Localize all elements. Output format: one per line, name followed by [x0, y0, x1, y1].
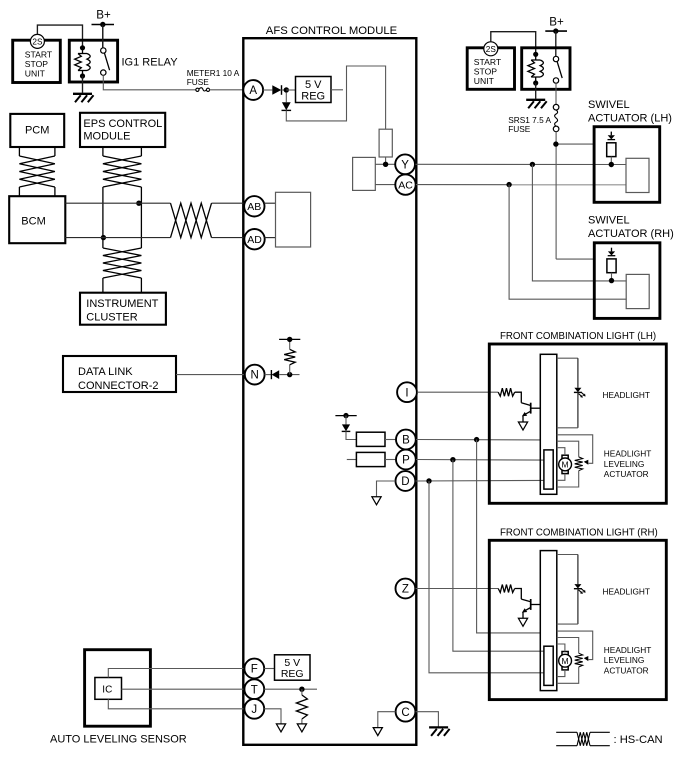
wire IC to pin F — [108, 669, 244, 678]
swivel actuator (RH) label — [588, 215, 674, 241]
svg-text:AC: AC — [398, 179, 413, 191]
svg-text:: HS-CAN: : HS-CAN — [614, 734, 663, 746]
junction at pin T — [299, 687, 304, 692]
svg-text:ACTUATOR (LH): ACTUATOR (LH) — [588, 113, 672, 125]
svg-text:IC: IC — [102, 684, 112, 695]
svg-text:SWIVEL: SWIVEL — [588, 215, 630, 227]
pin A — [243, 80, 263, 100]
svg-text:LEVELING: LEVELING — [604, 459, 645, 469]
actuator connector (RH) — [544, 646, 553, 685]
ground (pin T divider) — [297, 724, 306, 732]
connector 2S (left) — [30, 34, 44, 48]
svg-text:B+: B+ — [549, 16, 564, 29]
wire AB to CAN transceiver — [264, 202, 276, 204]
motor M (RH leveling) — [559, 652, 572, 670]
CAN transceiver block U3 — [276, 192, 311, 247]
resistor R3 (to pin B) — [356, 432, 385, 446]
wire CAN-L BCM to module — [65, 237, 244, 239]
ground (transistor emitter, LH) — [518, 422, 527, 430]
wire IC to pin J — [108, 699, 244, 709]
wire stub from 5V REG output — [331, 89, 343, 91]
svg-text:D: D — [401, 476, 409, 488]
resistor (RH swivel) — [607, 259, 616, 281]
junction on Y wire for RH — [530, 162, 535, 167]
resistor R5 (at pin T) — [296, 689, 307, 724]
resistor (headlight driver base, LH) — [498, 388, 521, 403]
start stop unit (left) — [13, 40, 61, 82]
svg-text:UNIT: UNIT — [25, 69, 46, 79]
junction node on Y line — [383, 162, 388, 167]
svg-text:F: F — [251, 664, 258, 676]
junction B wire to RH — [474, 437, 479, 442]
pin F — [244, 659, 264, 679]
front combination light (LH) box — [489, 344, 666, 503]
ground (right relay coil) — [526, 100, 547, 109]
diode D1 (series from pin A) — [272, 85, 286, 95]
junction CAN-H at EPS drop — [136, 201, 141, 206]
front combination light (LH) title — [500, 331, 656, 342]
5 V regulator (lower) U4 — [275, 655, 311, 680]
connector 2S (right) — [484, 42, 498, 56]
svg-text:BCM: BCM — [21, 216, 45, 228]
HEADLIGHT label (RH) — [603, 586, 650, 596]
svg-text:IG1 RELAY: IG1 RELAY — [122, 57, 179, 69]
wire SRS fuse to swivel actuators — [556, 132, 594, 259]
wire IG1 switch to METER1 fuse — [103, 75, 196, 90]
swivel actuator (LH) box — [594, 127, 660, 203]
svg-text:ACTUATOR: ACTUATOR — [604, 469, 649, 479]
wire IC to pin T — [122, 688, 245, 690]
wire U2 to pin AC — [375, 184, 395, 186]
connector strip (RH light) — [540, 551, 557, 691]
wire pin F to 5V regulator — [264, 668, 274, 670]
IC block (auto leveling sensor) — [95, 678, 122, 700]
wire AD to CAN transceiver — [264, 237, 275, 239]
svg-text:B: B — [402, 435, 410, 447]
svg-text:T: T — [251, 684, 258, 696]
motor M (LH leveling) — [559, 455, 572, 473]
auto leveling sensor box — [50, 650, 187, 746]
swivel actuator (LH) label — [588, 99, 672, 125]
wire pin Z to RH light — [416, 588, 499, 590]
wire DLC-2 to pin N — [176, 374, 245, 376]
resistor R4 (to pin P) — [347, 452, 396, 466]
junction B+ feed LH/RH — [553, 141, 558, 146]
svg-text:AD: AD — [247, 234, 262, 246]
svg-text:I: I — [405, 387, 408, 399]
HEADLIGHT LEVELING ACTUATOR label (RH) — [604, 645, 651, 676]
pin J — [244, 699, 264, 719]
svg-text:SWIVEL: SWIVEL — [588, 99, 630, 111]
transistor Q (LH headlight driver) — [521, 403, 540, 422]
svg-text:REG: REG — [281, 668, 304, 680]
wire AC branch to RH actuator — [509, 185, 626, 300]
pin AC — [395, 174, 415, 194]
wire pin C to signal ground — [378, 712, 396, 728]
wire motor supply (RH) — [557, 644, 565, 677]
pin I — [397, 382, 417, 402]
headlight lamp (RH) — [557, 555, 586, 625]
pin AB — [244, 196, 264, 216]
svg-text:5 V: 5 V — [305, 79, 322, 91]
svg-text:UNIT: UNIT — [474, 76, 495, 86]
motor block (RH swivel) — [626, 274, 649, 308]
5 V regulator (upper) U1 — [296, 77, 332, 103]
swivel actuator (RH) box — [594, 243, 660, 319]
svg-text:A: A — [249, 85, 257, 97]
junction CAN-L at EPS drop — [101, 235, 106, 240]
svg-text:HEADLIGHT: HEADLIGHT — [603, 390, 650, 400]
pin P — [396, 450, 416, 470]
wire IG1 coil to ground — [82, 76, 84, 93]
twisted pair PCM to BCM (HS-CAN) — [19, 147, 55, 196]
svg-text:DATA LINK: DATA LINK — [78, 366, 133, 378]
data link connector-2 box — [63, 356, 176, 392]
wire pin I to LH light — [417, 391, 498, 393]
HEADLIGHT label (LH) — [603, 390, 650, 400]
svg-text:HEADLIGHT: HEADLIGHT — [604, 449, 651, 459]
svg-text:2S: 2S — [486, 45, 497, 54]
pin Z — [396, 579, 416, 599]
twisted pair bus to module (HS-CAN) — [171, 203, 212, 237]
svg-text:Z: Z — [402, 584, 409, 596]
svg-text:LEVELING: LEVELING — [604, 655, 645, 665]
wire fuse to pin A — [210, 89, 244, 91]
wire 2S to IG1 relay coil — [37, 25, 82, 47]
wire P branch to RH light — [453, 460, 544, 652]
node after diode D1 — [284, 87, 289, 92]
EPS control module box — [80, 113, 165, 147]
position sensor potentiometer (RH) — [575, 653, 589, 667]
actuator connector (LH) — [544, 450, 553, 489]
wire pin Y to swivel actuators — [416, 163, 627, 165]
svg-text:B+: B+ — [96, 9, 111, 22]
svg-text:FRONT COMBINATION LIGHT (RH): FRONT COMBINATION LIGHT (RH) — [500, 527, 658, 538]
twisted pair to instrument cluster (HS-CAN) — [103, 248, 141, 292]
ground (pin C internal) — [373, 728, 382, 736]
IG1 relay box — [69, 40, 178, 82]
connector strip (LH light) — [540, 354, 557, 494]
wire pin AC to swivel actuators — [416, 184, 626, 186]
wire pin D to LH light — [416, 479, 544, 482]
svg-text:MODULE: MODULE — [83, 131, 130, 143]
wire to 5V regulator — [286, 89, 295, 91]
pin C — [396, 702, 416, 722]
diode feed arrow (LH swivel) — [608, 132, 616, 140]
svg-text:C: C — [401, 707, 409, 719]
IG1 relay coil — [75, 45, 91, 78]
relay coil (right) — [528, 52, 544, 86]
svg-text:AB: AB — [247, 201, 261, 213]
legend HS-CAN twisted pair — [556, 732, 662, 746]
svg-text:AUTO LEVELING SENSOR: AUTO LEVELING SENSOR — [50, 734, 187, 746]
svg-text:FUSE: FUSE — [508, 124, 531, 134]
diode feed arrow (RH swivel) — [608, 248, 616, 256]
svg-text:FRONT COMBINATION LIGHT (LH): FRONT COMBINATION LIGHT (LH) — [500, 331, 656, 342]
motor block (LH swivel) — [626, 158, 649, 192]
wire motor supply (LH) — [557, 448, 565, 481]
node B+ (left battery feed) — [92, 9, 115, 49]
wire Y branch to RH actuator — [532, 164, 626, 281]
wire B+ to IG1 switch — [102, 26, 104, 48]
position sensor potentiometer (LH) — [575, 457, 589, 471]
resistor R2 (pull-up at N) — [284, 339, 295, 374]
fuse METER1 10 A — [187, 68, 240, 92]
svg-text:CLUSTER: CLUSTER — [86, 311, 137, 323]
IG1 relay switch — [101, 48, 110, 76]
svg-text:HEADLIGHT: HEADLIGHT — [604, 645, 651, 655]
internal supply tick at B — [335, 413, 356, 418]
pin Y — [395, 154, 415, 174]
wire 2S to relay coil (right) — [491, 32, 536, 55]
svg-text:M: M — [562, 656, 569, 666]
wire R3 to pin B — [385, 439, 396, 441]
twisted pair EPS to bus (HS-CAN) — [103, 147, 141, 248]
start stop unit (right) — [467, 48, 514, 90]
wire CAN-H BCM to module — [65, 202, 244, 204]
node B+ (right battery feed) — [545, 16, 567, 57]
instrument cluster box — [80, 293, 166, 325]
wire pin J to ground — [264, 709, 281, 724]
svg-text:M: M — [562, 460, 569, 470]
fuse SRS1 7.5 A — [508, 104, 559, 134]
ground (pin D) — [372, 497, 381, 505]
diode D4 at B pull-up — [342, 416, 357, 440]
junction (RH swivel) — [609, 278, 614, 283]
wire potentiometer (LH) — [557, 435, 593, 487]
svg-text:ACTUATOR (RH): ACTUATOR (RH) — [588, 228, 674, 240]
svg-text:ACTUATOR: ACTUATOR — [604, 665, 649, 675]
svg-text:Y: Y — [401, 159, 409, 171]
svg-text:P: P — [402, 455, 410, 467]
wire relay coil to ground (right) — [535, 83, 537, 99]
wire D branch to RH light — [429, 481, 544, 673]
wire pin P to LH light — [416, 459, 544, 462]
pin D — [396, 471, 416, 491]
resistor R1 (pull-up on Y) — [379, 129, 392, 157]
wire R1 to node Y — [385, 157, 387, 164]
wire B branch to RH light — [477, 440, 541, 633]
wire internal 5V rail — [286, 66, 385, 129]
headlight lamp (LH) — [557, 358, 586, 428]
wire pin A to diode — [263, 89, 272, 91]
wire relay switch to SRS fuse — [555, 83, 557, 104]
svg-text:HEADLIGHT: HEADLIGHT — [603, 586, 650, 596]
resistor (headlight driver base, RH) — [498, 585, 521, 600]
front combination light (RH) box — [489, 540, 666, 699]
junction at pin N network — [287, 372, 292, 377]
PCM box — [10, 114, 64, 147]
svg-text:N: N — [251, 370, 259, 382]
driver block U2 (swivel output) — [353, 157, 376, 190]
BCM box — [9, 196, 65, 243]
junction D wire to RH — [426, 478, 431, 483]
pin AD — [244, 229, 264, 249]
svg-text:AFS CONTROL MODULE: AFS CONTROL MODULE — [266, 25, 398, 37]
wire pin B to LH light — [416, 439, 540, 441]
ground (IG1 relay coil) — [73, 94, 94, 103]
svg-text:EPS CONTROL: EPS CONTROL — [83, 118, 162, 130]
wire U2 to pin Y — [375, 163, 395, 165]
junction on AC wire for RH — [506, 182, 511, 187]
diode D3 at pin N — [265, 370, 300, 379]
svg-text:FUSE: FUSE — [187, 77, 210, 87]
ground (pin J) — [276, 724, 285, 732]
relay box (right) — [522, 48, 570, 90]
wire pin C to chassis ground — [416, 712, 439, 727]
resistor (LH swivel) — [607, 143, 616, 165]
svg-text:PCM: PCM — [25, 124, 49, 136]
pin B — [396, 430, 416, 450]
svg-text:2S: 2S — [32, 38, 43, 47]
wire pin T to divider — [264, 688, 317, 690]
svg-text:INSTRUMENT: INSTRUMENT — [86, 298, 158, 310]
ground (transistor emitter, RH) — [518, 618, 527, 626]
internal supply tick at N — [279, 337, 300, 342]
svg-text:CONNECTOR-2: CONNECTOR-2 — [78, 380, 158, 392]
transistor Q (RH headlight driver) — [521, 599, 540, 618]
HEADLIGHT LEVELING ACTUATOR label (LH) — [604, 449, 651, 480]
junction (LH swivel) — [609, 162, 614, 167]
pin N — [245, 365, 265, 385]
AFS control module box — [243, 25, 416, 745]
wire potentiometer (RH) — [557, 631, 593, 683]
relay switch (right) — [553, 56, 562, 83]
junction P wire to RH — [450, 457, 455, 462]
ground (pin C chassis) — [429, 727, 450, 736]
pin T — [244, 679, 264, 699]
zener diode D2 to internal rail — [282, 93, 292, 111]
svg-text:J: J — [251, 704, 257, 716]
svg-text:REG: REG — [301, 91, 325, 103]
front combination light (RH) title — [500, 527, 658, 538]
wire pin D to signal ground — [377, 481, 396, 497]
